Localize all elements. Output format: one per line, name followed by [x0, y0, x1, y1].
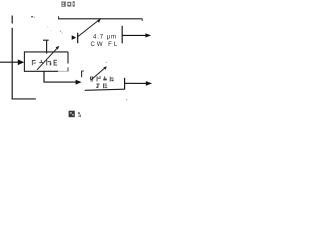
modulator box A2 — [24, 51, 68, 71]
tunable arrow through laser box U1 — [78, 18, 101, 36]
meter box M3 right edge — [124, 78, 126, 90]
wire: meter output arrow — [125, 82, 147, 84]
svg-text:CW FL: CW FL — [91, 42, 120, 48]
meter box M3 bottom edge — [85, 89, 125, 90]
top gray figure label — [61, 1, 74, 7]
meter box M3 left edge (partial) — [81, 71, 83, 78]
scan noise speckles — [31, 16, 127, 100]
rail left end tick — [58, 16, 60, 19]
laser box U1 right edge — [121, 26, 123, 44]
left vertical bus (solid) — [11, 28, 13, 100]
svg-text:4.7 μm: 4.7 μm — [93, 35, 117, 41]
rail right end tick — [141, 19, 143, 21]
wire: input arrow into modulator box A2 — [0, 61, 19, 63]
caption: figure number — [69, 111, 81, 118]
wire: laser output with arrowhead — [122, 34, 146, 36]
meter box M3 label glyphs row 1 — [90, 76, 114, 81]
tunable arrow through modulator box A2 — [37, 48, 57, 70]
wire: top horizontal rail — [58, 18, 143, 20]
stub tick — [43, 39, 49, 41]
wire: modulator down-then-right to meter box M3 — [44, 71, 76, 82]
left vertical bus (dashed top) — [11, 16, 13, 24]
stub wire above modulator — [46, 40, 48, 53]
laser box U1 left edge — [77, 33, 79, 44]
meter box M3 label glyphs row 2 — [96, 83, 107, 88]
modulator box A2 label glyphs — [32, 60, 57, 66]
tunable arrow through meter box M3 — [91, 68, 105, 80]
wire: bottom corner of bus — [12, 98, 36, 100]
arrowhead into laser box U1 — [72, 35, 77, 40]
